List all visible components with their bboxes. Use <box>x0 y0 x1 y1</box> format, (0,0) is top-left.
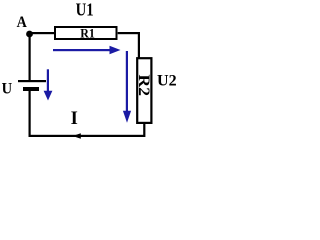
wire: R1 right to corner <box>118 32 140 34</box>
svg-text:R1: R1 <box>80 26 95 41</box>
svg-text:U: U <box>2 81 13 98</box>
current direction arrow through R1 (blue, points right) <box>53 46 121 54</box>
wire: right vertical down to R2 <box>138 32 140 58</box>
wire top: node A to R1 <box>29 32 55 34</box>
voltage arrow U across battery (blue, points down) <box>44 69 53 100</box>
voltage arrow U2 across R2 (blue, points down) <box>123 51 131 123</box>
node A junction dot <box>26 31 33 38</box>
battery plate long (top) <box>18 80 46 82</box>
resistor R1 <box>55 27 117 39</box>
svg-text:A: A <box>17 14 28 31</box>
current arrowhead on bottom wire (points left) <box>73 133 81 138</box>
wire: R2 bottom to bottom rail <box>143 123 145 137</box>
svg-text:R2: R2 <box>135 75 152 97</box>
svg-text:U2: U2 <box>157 73 177 90</box>
battery plate short thick (bottom) <box>23 87 39 91</box>
resistor R2 <box>137 58 151 123</box>
svg-text:I: I <box>71 109 78 129</box>
wire left rail lower: battery to bottom rail <box>29 91 31 137</box>
svg-text:U1: U1 <box>76 0 94 20</box>
wire bottom rail <box>29 135 146 137</box>
wire left rail upper: dot down to battery <box>29 34 31 81</box>
